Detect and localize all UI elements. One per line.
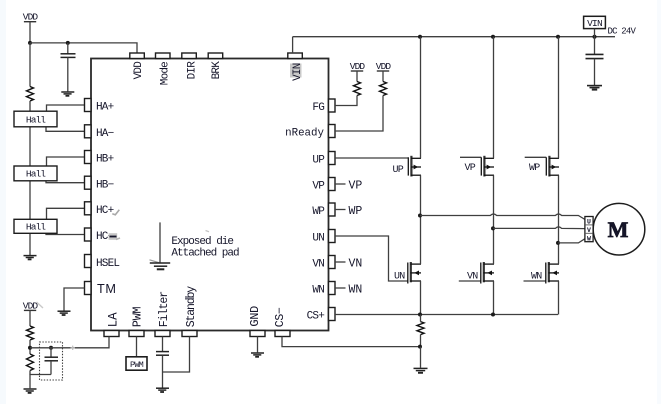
wire hall rail 1-2 xyxy=(29,127,31,167)
svg-text:HB−: HB− xyxy=(96,179,114,191)
svg-text:UP: UP xyxy=(312,155,325,167)
pin TM (left) xyxy=(85,282,117,297)
svg-text:M: M xyxy=(608,217,629,242)
ground below C3 xyxy=(156,388,169,392)
node phase V xyxy=(491,226,495,230)
pin WP (right) xyxy=(312,203,335,218)
resistor R4 FG pull-up xyxy=(354,82,361,96)
node cap tap xyxy=(49,346,53,350)
svg-text:VP: VP xyxy=(312,181,325,193)
ground below C1 xyxy=(61,92,74,96)
wire phase W to motor xyxy=(558,239,585,243)
svg-text:WN: WN xyxy=(349,284,363,297)
wire cap top stub xyxy=(67,43,69,54)
wire rail to sense resistor xyxy=(420,315,422,322)
svg-text:BRK: BRK xyxy=(211,61,223,80)
svg-text:VIN: VIN xyxy=(587,18,602,29)
wire Q6 source to rail xyxy=(558,281,560,315)
dashed option box xyxy=(40,342,63,380)
wire VDD horizontal to IC VDD pin xyxy=(30,43,137,53)
wire Q2 source to V node xyxy=(493,175,495,228)
gray artifact near exposed pad text xyxy=(206,231,210,232)
gray artifact near bottom VDD xyxy=(37,302,44,308)
svg-text:VN: VN xyxy=(467,272,478,283)
ground below C4 xyxy=(587,86,602,90)
motor M xyxy=(593,203,645,255)
svg-text:Hall: Hall xyxy=(26,169,46,180)
wire sense resistor to CS- node xyxy=(420,335,422,347)
wire VIN bus xyxy=(293,36,615,38)
pin VDD (top) xyxy=(130,53,145,79)
wire Filter pin to C3 xyxy=(162,337,164,352)
resistor R5 nReady pull-up xyxy=(380,82,387,96)
gray artifact near LA wire xyxy=(71,346,76,350)
svg-text:VDD: VDD xyxy=(376,61,392,72)
Hall sensor 2 xyxy=(14,166,57,181)
capacitor C2 (in dashed box) xyxy=(45,357,59,374)
svg-text:CS−: CS− xyxy=(274,307,287,327)
pin nReady (right) xyxy=(285,125,335,140)
svg-text:U: U xyxy=(587,219,591,226)
pin UN (right) xyxy=(312,230,335,245)
wire Q6 drain to W node xyxy=(558,243,560,264)
svg-text:TM: TM xyxy=(97,282,117,296)
node phase U xyxy=(418,214,422,218)
svg-text:LA: LA xyxy=(107,312,121,328)
node bus W xyxy=(556,35,560,39)
svg-text:VN: VN xyxy=(312,259,324,271)
svg-text:DC 24V: DC 24V xyxy=(608,26,637,36)
wire cap top stub xyxy=(50,348,52,357)
power symbol VDD (top-left) xyxy=(23,12,39,23)
Hall sensor 3 xyxy=(14,219,57,233)
pin HSEL (left) xyxy=(85,255,120,271)
svg-text:PWM: PWM xyxy=(131,307,145,328)
pin Filter (bottom) xyxy=(155,292,171,337)
capacitor C1 bypass xyxy=(61,54,76,58)
exposed pad ground xyxy=(150,260,171,270)
svg-text:Mode: Mode xyxy=(160,62,172,85)
pin VN (right) xyxy=(312,256,335,271)
svg-text:VIN: VIN xyxy=(292,63,304,81)
wire junction to resistor xyxy=(29,43,31,87)
svg-text:W: W xyxy=(587,236,591,243)
pin PWM (bottom) xyxy=(129,307,145,337)
svg-text:HSEL: HSEL xyxy=(96,258,119,270)
node bus U xyxy=(418,35,422,39)
wire PWM pin down xyxy=(136,337,138,357)
net label WN at pin xyxy=(335,284,362,297)
label Exposed die Attached pad xyxy=(171,236,239,259)
transistor Q4 UN low-side xyxy=(408,262,421,284)
svg-text:VDD: VDD xyxy=(133,61,145,80)
wire Q1 drain to bus xyxy=(420,37,422,159)
net label VN at pin xyxy=(335,258,362,271)
pin HC+ (left) xyxy=(85,202,114,217)
svg-text:WN: WN xyxy=(531,272,542,283)
capacitor C4 bulk xyxy=(586,54,604,58)
node divider junction xyxy=(28,346,32,350)
label WP net stub xyxy=(525,157,547,174)
IC U1 body xyxy=(91,59,329,331)
power symbol VDD (bottom-left) xyxy=(23,301,39,312)
svg-text:HB+: HB+ xyxy=(96,154,114,166)
wire resistor to Hall1 xyxy=(29,101,31,112)
label VN net stub xyxy=(459,272,481,283)
transistor Q2 VP high-side xyxy=(481,156,494,177)
svg-text:PWM: PWM xyxy=(130,360,144,370)
wire HA+ xyxy=(47,105,85,112)
svg-text:VDD: VDD xyxy=(23,12,39,23)
svg-text:WP: WP xyxy=(312,206,325,218)
pin VP (right) xyxy=(312,178,335,193)
gray artifact near HC- xyxy=(109,233,120,240)
net label VP at pin xyxy=(335,180,362,193)
wire C4 to ground xyxy=(594,59,596,85)
node CS- junction xyxy=(418,345,422,349)
wire Q3 source to W node xyxy=(558,175,560,243)
svg-text:V: V xyxy=(587,227,591,234)
svg-text:Hall: Hall xyxy=(26,222,46,233)
power symbol VDD (FG pull-up) xyxy=(350,61,366,72)
wire HC+ xyxy=(47,208,85,219)
wire Standby to C3 bottom xyxy=(163,337,190,373)
wire TM to ground xyxy=(64,288,85,311)
wire VIN box stub xyxy=(594,29,596,37)
label VP net stub xyxy=(460,157,481,174)
wire cap bottom stub xyxy=(67,57,69,91)
wire HB+ xyxy=(47,157,85,167)
transistor Q6 WN low-side xyxy=(546,262,559,284)
pin DIR (top) xyxy=(182,53,199,79)
wire UN pin to Q4 gate xyxy=(335,236,408,281)
resistor R3 divider bottom xyxy=(27,354,34,370)
resistor R6 current sense xyxy=(417,322,424,335)
svg-text:VP: VP xyxy=(349,180,363,193)
gray artifact near HC+ xyxy=(112,210,119,215)
wire Q1 source to U node xyxy=(420,175,422,215)
svg-text:Filter: Filter xyxy=(158,292,171,328)
wire VDD rail down to junction xyxy=(29,22,31,43)
pin LA (bottom) xyxy=(104,312,121,337)
ground at TM xyxy=(58,311,71,315)
svg-text:FG: FG xyxy=(312,102,324,114)
node capacitor tap xyxy=(66,41,70,45)
ground below Hall3 xyxy=(24,256,37,260)
transistor Q3 WP high-side xyxy=(546,156,559,177)
wire CS+ rail xyxy=(335,314,558,316)
wire R3 bottom to ground and cap return xyxy=(30,375,51,389)
svg-text:Exposed die: Exposed die xyxy=(171,236,233,248)
wire hall rail 2-3 xyxy=(29,181,31,220)
exposed pad stem xyxy=(159,222,161,262)
wire R2 to junction xyxy=(29,340,31,354)
pin Standby (bottom) xyxy=(182,286,198,337)
wire Q2 drain to bus xyxy=(493,37,495,159)
motor terminal box U V W xyxy=(585,217,593,243)
Hall sensor 1 xyxy=(14,111,57,127)
svg-text:WP: WP xyxy=(349,205,363,218)
svg-text:CS+: CS+ xyxy=(307,311,325,323)
wire VDD to R2 xyxy=(29,310,31,326)
transistor Q1 UP high-side xyxy=(408,156,421,177)
pin HA- (left) xyxy=(85,125,114,140)
node VDD junction xyxy=(28,41,32,45)
node rail U xyxy=(418,313,422,317)
svg-text:Standby: Standby xyxy=(185,286,198,328)
wire C3 bottom to ground xyxy=(162,355,164,387)
pin CS+ (right) xyxy=(307,308,335,323)
transistor Q5 VN low-side xyxy=(481,262,494,284)
wire Q3 drain to bus xyxy=(558,37,560,159)
pin FG (right) xyxy=(312,99,335,114)
wire hall rail 3-gnd xyxy=(29,233,31,255)
wire CS- node to ground xyxy=(420,347,422,368)
wire phase U to motor xyxy=(420,214,585,220)
wire Q4 source to rail xyxy=(420,281,422,315)
pin UP (right) xyxy=(312,152,335,167)
pin VIN (top) with gray highlight xyxy=(288,53,304,81)
svg-text:WP: WP xyxy=(529,163,540,174)
ground below divider xyxy=(24,389,37,393)
svg-text:HC+: HC+ xyxy=(96,205,114,217)
resistor R1 hall bias xyxy=(27,87,34,102)
capacitor C3 filter xyxy=(156,352,169,356)
resistor R2 divider top xyxy=(27,326,34,340)
pin GND (bottom) xyxy=(248,306,265,337)
svg-text:UN: UN xyxy=(312,233,324,245)
node bus V xyxy=(491,35,495,39)
wire Q4 drain to U node xyxy=(420,216,422,265)
PWM source box xyxy=(126,357,147,370)
wire bus to C4 xyxy=(594,37,596,55)
pin CS- (bottom) xyxy=(274,307,290,337)
label WN net stub xyxy=(524,272,546,283)
wire UP pin to Q1 gate xyxy=(335,157,408,159)
svg-text:VDD: VDD xyxy=(350,61,366,72)
pin HA+ (left) xyxy=(85,99,114,114)
node rail V xyxy=(491,313,495,317)
svg-text:HA+: HA+ xyxy=(96,102,114,114)
VIN terminal box xyxy=(584,16,606,29)
svg-text:UP: UP xyxy=(393,165,404,176)
svg-text:WN: WN xyxy=(312,285,324,297)
svg-text:GND: GND xyxy=(248,306,262,327)
wire HB- xyxy=(46,181,85,183)
node bus VIN xyxy=(593,35,597,39)
svg-text:VP: VP xyxy=(465,163,476,174)
svg-text:UN: UN xyxy=(394,271,405,282)
wire divider junction to LA pin xyxy=(30,337,109,348)
wire Q5 drain to V node xyxy=(493,228,495,264)
svg-text:nReady: nReady xyxy=(285,128,324,140)
pin HB+ (left) xyxy=(85,151,114,166)
wire VIN pin to bus xyxy=(292,37,294,53)
wire phase V to motor xyxy=(493,227,585,229)
net label WP at pin xyxy=(335,205,362,218)
node phase W xyxy=(556,241,560,245)
wire VDD to R4 xyxy=(356,71,358,82)
ground below sense resistor xyxy=(414,368,428,372)
wire R5 to nReady pin xyxy=(335,96,383,132)
wire HA- xyxy=(46,127,85,132)
pin BRK (top) xyxy=(208,53,223,79)
svg-text:VN: VN xyxy=(349,258,363,271)
wire R4 to FG pin xyxy=(335,96,357,106)
wire HC- xyxy=(46,233,85,235)
svg-text:Attached pad: Attached pad xyxy=(171,247,239,259)
wire GND pin down xyxy=(257,337,259,353)
pin HB- (left) xyxy=(85,176,114,191)
pin Mode (top) xyxy=(156,53,172,85)
pin WN (right) xyxy=(312,282,335,297)
wire CS- to sense resistor bottom xyxy=(282,337,420,347)
pin HC- (left) xyxy=(85,228,114,243)
power symbol VDD (nReady pull-up) xyxy=(376,61,392,72)
svg-text:HA−: HA− xyxy=(96,128,114,140)
ground at GND pin xyxy=(251,353,264,357)
wire Q5 source to rail xyxy=(493,281,495,315)
svg-text:DIR: DIR xyxy=(187,61,199,80)
svg-text:Hall: Hall xyxy=(26,114,46,125)
wire VDD to R5 xyxy=(382,71,384,82)
